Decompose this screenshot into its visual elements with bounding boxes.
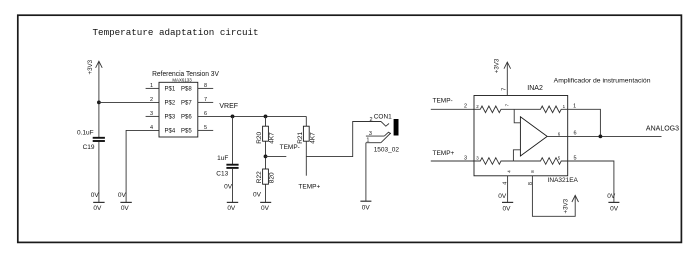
- IC pin 3 stub: [146, 111, 159, 117]
- wire IC pin 4 to ground: [126, 130, 159, 202]
- svg-text:2: 2: [464, 104, 467, 110]
- wire VREF to R20: [265, 116, 267, 126]
- wire TEMP+ node to connector pin 2: [306, 122, 381, 157]
- svg-text:4: 4: [502, 182, 508, 185]
- wire +3V3 rail to C19: [98, 102, 100, 137]
- svg-text:Temperature adaptation circuit: Temperature adaptation circuit: [93, 27, 259, 38]
- svg-text:0V: 0V: [253, 191, 262, 198]
- wire to non-inverting input: [514, 109, 520, 123]
- resistor R21 4K7: [297, 126, 317, 144]
- op-amp pin 5 wire to ground: [568, 155, 614, 202]
- svg-text:3: 3: [464, 155, 467, 161]
- op-amp internal input resistor (top left): [474, 106, 514, 113]
- svg-text:1: 1: [150, 83, 153, 89]
- IC pin 1 stub: [146, 83, 159, 89]
- svg-text:TEMP+: TEMP+: [298, 183, 320, 190]
- IC pin 8 stub: [198, 83, 213, 89]
- svg-text:+3V3: +3V3: [494, 58, 501, 73]
- wire R20 to TEMP- node: [265, 141, 267, 169]
- svg-text:8: 8: [204, 83, 207, 89]
- svg-text:P$4: P$4: [165, 129, 176, 135]
- op-amp U2 INA321EA body: [474, 85, 579, 184]
- svg-text:2: 2: [476, 104, 479, 109]
- resistor R20 4K7: [256, 126, 276, 144]
- ground 0V (connector): [360, 201, 371, 211]
- node junction on +3V3 rail: [97, 101, 101, 105]
- ground 0V (IC pin 4): [118, 192, 132, 212]
- node junction VREF / C13: [231, 115, 235, 119]
- svg-text:5: 5: [558, 156, 561, 161]
- svg-text:3: 3: [150, 111, 153, 117]
- svg-text:3: 3: [476, 156, 479, 161]
- svg-text:P$5: P$5: [181, 129, 192, 135]
- wire R22 to ground: [265, 184, 267, 202]
- svg-text:P$3: P$3: [165, 115, 176, 121]
- svg-text:7: 7: [204, 97, 207, 103]
- op-amp pin 8 wire to +3V3: [528, 176, 575, 217]
- resistor R22 820: [256, 169, 276, 184]
- wire C13 to ground: [232, 169, 234, 203]
- wire C19 to ground: [98, 142, 100, 202]
- svg-text:4K7: 4K7: [310, 132, 317, 144]
- svg-text:ANALOG3: ANALOG3: [646, 125, 679, 132]
- wire connector pin 1 to ground: [365, 143, 367, 201]
- wire op-amp output inside: [547, 135, 568, 137]
- svg-text:0V: 0V: [121, 205, 130, 212]
- ground 0V (op-amp pin 5): [608, 202, 619, 212]
- ground 0V (under R22): [260, 202, 271, 211]
- svg-text:+3V3: +3V3: [563, 198, 570, 213]
- supply +3V3 symbol (left rail): [87, 59, 102, 102]
- svg-text:P$6: P$6: [181, 115, 192, 121]
- svg-text:VREF: VREF: [219, 103, 238, 110]
- node junction output: [599, 135, 603, 139]
- ground 0V (op-amp pin 4): [502, 202, 513, 212]
- svg-text:0V: 0V: [93, 205, 102, 212]
- op-amp pin 6 output wire: [568, 131, 662, 137]
- svg-text:0V: 0V: [91, 192, 100, 199]
- svg-text:TEMP+: TEMP+: [433, 150, 455, 157]
- svg-text:C13: C13: [216, 170, 228, 177]
- op-amp internal feedback resistor (top right): [514, 106, 568, 113]
- svg-text:2: 2: [150, 97, 153, 103]
- ground 0V (under C13): [227, 202, 238, 211]
- svg-text:P$2: P$2: [165, 101, 176, 107]
- svg-text:CON1: CON1: [374, 113, 392, 120]
- svg-text:0V: 0V: [224, 184, 233, 191]
- ground 0V (under C19): [91, 192, 105, 212]
- svg-text:0V: 0V: [362, 205, 371, 212]
- svg-text:0V: 0V: [498, 193, 507, 200]
- op-amp triangle: [520, 117, 547, 156]
- wire R21 to TEMP+ stub: [305, 141, 307, 176]
- svg-text:0V: 0V: [503, 206, 512, 213]
- svg-text:TEMP-: TEMP-: [280, 144, 300, 151]
- svg-text:7: 7: [501, 88, 507, 91]
- svg-text:2: 2: [369, 117, 372, 123]
- op-amp internal input resistor (bottom left): [474, 158, 513, 165]
- svg-text:4K7: 4K7: [269, 132, 276, 144]
- svg-text:0.1uF: 0.1uF: [77, 130, 94, 137]
- svg-text:0V: 0V: [261, 205, 270, 212]
- supply +3V3 symbol (op-amp pin 7): [494, 58, 511, 95]
- svg-text:+3V3: +3V3: [87, 59, 94, 74]
- svg-text:TEMP-: TEMP-: [433, 98, 453, 105]
- node junction TEMP-: [264, 155, 268, 159]
- svg-text:P$7: P$7: [181, 101, 192, 107]
- wire to inverting input: [513, 150, 520, 161]
- IC pin 5 stub: [198, 125, 213, 131]
- wire net TEMP- stub: [266, 155, 287, 157]
- wire TEMP- to op-amp pin 2: [431, 104, 474, 110]
- svg-text:8: 8: [530, 170, 535, 173]
- svg-text:1: 1: [563, 104, 566, 109]
- svg-text:0V: 0V: [118, 192, 127, 199]
- svg-text:0V: 0V: [227, 205, 236, 212]
- svg-text:C19: C19: [83, 144, 95, 151]
- svg-text:MAX6133: MAX6133: [172, 78, 192, 83]
- svg-text:4: 4: [150, 125, 153, 131]
- supply +3V3 symbol (op-amp pin 8): [563, 195, 579, 213]
- svg-text:6: 6: [574, 131, 577, 137]
- op-amp pin 4 wire to ground: [502, 176, 508, 203]
- svg-text:5: 5: [574, 155, 577, 161]
- wire VREF rail (IC pin 6 to R21 top): [198, 115, 306, 117]
- svg-text:4: 4: [507, 170, 512, 173]
- svg-text:INA2: INA2: [527, 85, 543, 92]
- svg-text:5: 5: [204, 125, 207, 131]
- voltage reference IC MAX6133: [152, 71, 219, 137]
- svg-text:1503_02: 1503_02: [374, 147, 400, 154]
- svg-text:1: 1: [573, 104, 576, 110]
- op-amp internal feedback resistor (bottom right): [513, 158, 567, 165]
- node junction VREF / R20: [264, 115, 268, 119]
- svg-text:820: 820: [269, 172, 276, 183]
- svg-text:7: 7: [504, 103, 509, 106]
- connector CON1 1503_02: [366, 113, 399, 153]
- svg-text:R20: R20: [256, 131, 263, 143]
- svg-text:8: 8: [528, 182, 534, 185]
- svg-text:P$8: P$8: [181, 87, 192, 93]
- wire TEMP+ to op-amp pin 3: [431, 155, 474, 161]
- svg-text:R22: R22: [256, 171, 263, 183]
- wire VREF to R21: [305, 116, 307, 126]
- svg-text:R21: R21: [297, 131, 304, 143]
- wire VREF to C13: [232, 116, 234, 164]
- svg-text:0V: 0V: [607, 193, 616, 200]
- IC pin 7 stub: [198, 97, 213, 103]
- svg-text:0V: 0V: [610, 206, 619, 213]
- svg-text:P$1: P$1: [165, 87, 176, 93]
- op-amp pin 1 wire to output node: [568, 104, 601, 137]
- capacitor C13 1uF: [216, 155, 238, 177]
- capacitor C19 0.1uF: [77, 130, 105, 151]
- wire +3V3 rail to IC pin 2: [99, 101, 159, 103]
- svg-text:1uF: 1uF: [217, 155, 228, 162]
- svg-text:6: 6: [558, 132, 561, 137]
- svg-text:Amplificador de instrumentació: Amplificador de instrumentación: [554, 78, 651, 85]
- svg-text:INA321EA: INA321EA: [548, 177, 579, 184]
